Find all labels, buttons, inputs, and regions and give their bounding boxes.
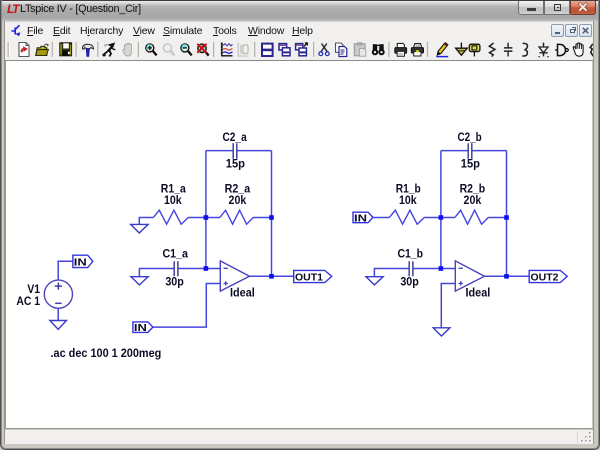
icon: waveform xyxy=(221,43,233,56)
svg-text:15p: 15p xyxy=(226,159,245,171)
icon: control panel (hammer) xyxy=(82,44,93,56)
wire V1 bottom xyxy=(57,308,59,320)
mdi doc icon xyxy=(7,23,23,38)
wire V1 top to IN xyxy=(58,261,72,280)
svg-text:.ac dec 100 1 200meg: .ac dec 100 1 200meg xyxy=(51,346,162,360)
svg-text:IN: IN xyxy=(354,212,367,224)
node b R junction xyxy=(439,215,444,220)
icon: cut xyxy=(319,44,329,56)
wire op-amp a output xyxy=(250,275,294,277)
svg-text:R2_b: R2_b xyxy=(460,184,486,196)
icon: diode xyxy=(538,43,549,57)
schematic area xyxy=(6,61,592,428)
icon: draw wire (pencil) xyxy=(436,43,448,57)
resistor R2_b xyxy=(441,217,455,219)
icon: move (hand) xyxy=(573,43,583,56)
net flag IN (circuit b) xyxy=(353,212,373,223)
svg-text:IN: IN xyxy=(74,256,87,268)
node b output junction xyxy=(504,274,509,279)
svg-text:Ideal: Ideal xyxy=(230,287,255,299)
wire C1_a to node / op-amp minus xyxy=(179,268,221,270)
title text xyxy=(20,3,320,18)
svg-text:15p: 15p xyxy=(461,159,480,171)
voltage source V1 xyxy=(44,280,72,308)
wire right column b xyxy=(506,151,508,277)
op-amp U_a xyxy=(220,261,249,291)
ground (R1_a left) xyxy=(139,218,153,225)
icon: zoom full extents xyxy=(197,44,208,56)
icon: paste (disabled) xyxy=(354,43,366,57)
icon: resistor xyxy=(489,43,495,57)
icon: component (gate) xyxy=(555,44,568,55)
close xyxy=(570,1,596,15)
icon: copy xyxy=(336,43,347,57)
icon: new schematic xyxy=(19,43,29,57)
svg-text:V1: V1 xyxy=(27,284,40,296)
svg-text:C1_b: C1_b xyxy=(397,249,423,261)
icon: print preview xyxy=(411,44,423,57)
svg-text:R1_b: R1_b xyxy=(396,184,421,196)
ground (V1) xyxy=(50,321,67,330)
svg-text:R1_a: R1_a xyxy=(161,184,187,196)
icon: print xyxy=(395,43,407,56)
junction dots xyxy=(204,215,509,278)
svg-text:30p: 30p xyxy=(400,277,419,289)
wire R1_a to node xyxy=(189,217,206,219)
net flag OUT2 xyxy=(529,270,567,282)
icon: ground symbol xyxy=(456,43,468,56)
svg-text:IN: IN xyxy=(134,322,147,334)
title bar xyxy=(0,0,600,21)
svg-text:20k: 20k xyxy=(229,195,247,207)
svg-text:C1_a: C1_a xyxy=(162,249,188,261)
icon: run xyxy=(103,43,115,56)
toolbar icons container xyxy=(0,37,600,61)
capacitor C1_b xyxy=(409,261,413,276)
node b R2 right junction xyxy=(504,215,509,220)
icon: partial (right edge) xyxy=(590,44,593,56)
resistor R1_a xyxy=(154,210,189,224)
wire C1_b to node / op-amp minus xyxy=(414,268,456,270)
schematic text labels xyxy=(16,132,558,360)
maximize/restore xyxy=(544,1,570,15)
wire top rail b xyxy=(441,150,507,152)
icon: capacitor xyxy=(504,43,513,57)
toolbar left grip xyxy=(7,42,9,57)
wire left column b xyxy=(440,151,442,269)
window buttons xyxy=(518,1,596,15)
svg-text:30p: 30p xyxy=(165,277,184,289)
svg-text:10k: 10k xyxy=(164,195,182,207)
icon: label net xyxy=(469,44,480,56)
node a output junction xyxy=(269,274,274,279)
capacitor C2_a xyxy=(233,143,237,158)
icon: cascade with arrow xyxy=(296,43,308,56)
toolbar xyxy=(5,37,593,61)
ground (op-amp b plus) xyxy=(433,328,450,336)
svg-text:C2_b: C2_b xyxy=(458,132,482,144)
ground (C1_a left) xyxy=(139,269,173,277)
svg-text:OUT2: OUT2 xyxy=(531,272,559,284)
icon: zoom in xyxy=(146,44,157,56)
icon: spice log (disabled) xyxy=(237,43,248,56)
svg-text:AC 1: AC 1 xyxy=(16,296,40,308)
svg-text:R2_a: R2_a xyxy=(225,184,251,196)
wire right column a xyxy=(271,151,273,277)
svg-text:C2_a: C2_a xyxy=(223,132,248,144)
capacitor C2_b xyxy=(468,143,472,158)
client area sunken side borders xyxy=(4,21,5,444)
op-amp U_b xyxy=(455,261,484,291)
wire left column a xyxy=(205,151,207,269)
icon: inductor xyxy=(522,43,527,56)
icon: zoom out xyxy=(181,44,192,56)
toolbar separators xyxy=(52,42,427,57)
resize grip xyxy=(580,432,593,444)
icon: halt (grey hand) xyxy=(123,43,132,56)
node a R2 right junction xyxy=(269,215,274,220)
svg-text:OUT1: OUT1 xyxy=(295,272,323,284)
capacitor C1_a xyxy=(174,261,178,276)
icon: zoom back (disabled) xyxy=(164,44,175,56)
LT logo xyxy=(7,2,21,15)
icon: save xyxy=(60,43,72,56)
node a C1 junction xyxy=(204,266,209,271)
mdi window buttons xyxy=(551,24,595,38)
wire op-amp a plus input jog xyxy=(153,284,221,328)
wire top rail a xyxy=(206,150,272,152)
icon: cascade windows xyxy=(279,44,290,56)
net flag OUT1 xyxy=(294,270,332,282)
ground (C1_b left) xyxy=(374,269,408,277)
net flag IN (circuit a) xyxy=(133,322,153,333)
status bar xyxy=(5,428,593,429)
wire op-amp b output xyxy=(485,275,529,277)
icon: find xyxy=(372,44,385,55)
resistor R2_a xyxy=(206,217,220,219)
menu bar xyxy=(5,21,593,37)
svg-text:10k: 10k xyxy=(399,195,417,207)
icon: tile window xyxy=(262,44,273,56)
icon: open xyxy=(36,44,49,55)
net flag IN (V1) xyxy=(73,255,93,267)
resistor R1_b xyxy=(373,217,389,219)
svg-text:Ideal: Ideal xyxy=(466,287,491,299)
node b C1 junction xyxy=(439,266,444,271)
svg-text:20k: 20k xyxy=(464,195,482,207)
wire op-amp b plus input to ground xyxy=(441,284,455,328)
minimize xyxy=(518,1,544,15)
node a R junction xyxy=(204,215,209,220)
